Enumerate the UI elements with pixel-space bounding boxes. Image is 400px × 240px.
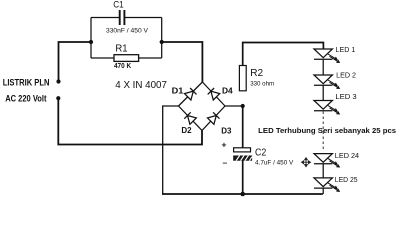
resistor R1 body bbox=[114, 55, 139, 62]
wire bridge side D2 bbox=[179, 106, 203, 131]
svg-text:–: – bbox=[223, 158, 228, 168]
wire bottom rail bbox=[162, 193, 323, 195]
node A left junction of C1/R1 bbox=[89, 40, 93, 44]
diode D4 symbol (apex toward top vertex) bbox=[208, 88, 220, 100]
node B right junction of C1/R1 bbox=[160, 40, 164, 44]
node D bottom rail junction bbox=[240, 192, 245, 197]
svg-text:D1: D1 bbox=[172, 87, 184, 96]
wire LED25 to bottom rail bbox=[322, 188, 324, 194]
wire left stub of parallel C1/R1 bbox=[90, 18, 92, 59]
resistor R2 body bbox=[239, 66, 246, 91]
svg-text:C2: C2 bbox=[255, 146, 266, 158]
svg-text:LED 2: LED 2 bbox=[336, 71, 356, 80]
LED 25 bbox=[314, 178, 339, 191]
wire dashed continuation of LED chain bbox=[322, 112, 324, 152]
wire bridge side D4 bbox=[202, 82, 225, 106]
svg-text:330 ohm: 330 ohm bbox=[250, 81, 274, 88]
svg-text:LISTRIK PLN: LISTRIK PLN bbox=[3, 77, 50, 87]
capacitor C2 positive plate bbox=[234, 148, 251, 152]
wire R2 top to rail corner bbox=[243, 43, 324, 91]
svg-text:R2: R2 bbox=[250, 67, 263, 79]
svg-text:LED 3: LED 3 bbox=[335, 92, 356, 101]
node C junction R2/C2 bbox=[241, 104, 245, 108]
svg-text:4 X IN 4007: 4 X IN 4007 bbox=[115, 79, 167, 91]
move cross marker bbox=[302, 158, 311, 167]
wire AC live: terminal up to corner then right to node A bbox=[59, 42, 92, 80]
diode D1 symbol (apex toward top vertex) bbox=[185, 88, 197, 100]
wire LED1-LED2 bbox=[322, 59, 324, 75]
LED 24 bbox=[314, 154, 339, 167]
svg-text:R1: R1 bbox=[115, 44, 128, 55]
svg-text:D3: D3 bbox=[221, 126, 232, 135]
capacitor C1 plates bbox=[119, 10, 121, 25]
terminal LISTRIK PLN bbox=[56, 79, 60, 83]
wire bridge left vertex down bbox=[163, 106, 179, 195]
svg-text:330nF / 450 V: 330nF / 450 V bbox=[106, 28, 148, 35]
capacitor C2 negative plate (hatched) bbox=[234, 156, 252, 161]
wire R1 branch left bbox=[91, 57, 114, 59]
svg-text:AC 220 Volt: AC 220 Volt bbox=[5, 94, 46, 104]
svg-text:D2: D2 bbox=[181, 126, 192, 135]
svg-text:+: + bbox=[222, 140, 227, 150]
wire bridge right vertex to R2/C2 node bbox=[225, 105, 243, 107]
svg-text:470 K: 470 K bbox=[114, 63, 131, 70]
wire R1 branch right bbox=[139, 57, 162, 59]
wire AC neutral: terminal down, right, up to bridge bottom bbox=[58, 100, 202, 145]
svg-text:4.7uF / 450 V: 4.7uF / 450 V bbox=[255, 159, 294, 166]
svg-text:C1: C1 bbox=[113, 0, 123, 10]
LED 1 bbox=[314, 49, 339, 62]
wire C2 bottom to bottom rail bbox=[242, 160, 244, 194]
svg-text:LED 24: LED 24 bbox=[335, 151, 359, 160]
wire right stub of parallel C1/R1 bbox=[161, 18, 163, 59]
LED 3 bbox=[314, 101, 339, 114]
wire node C down to C2 bbox=[242, 106, 244, 148]
wire LED24-LED25 bbox=[322, 164, 324, 178]
wire C1 branch left bbox=[91, 17, 119, 19]
wire node B to bridge top bbox=[162, 42, 203, 82]
svg-text:LED 1: LED 1 bbox=[336, 45, 356, 54]
diode D3 symbol (apex toward right vertex) bbox=[208, 112, 220, 124]
svg-text:D4: D4 bbox=[222, 87, 233, 96]
diode D2 symbol (apex toward left vertex) bbox=[184, 112, 196, 124]
LED 2 bbox=[314, 75, 339, 88]
wire LED2-LED3 bbox=[322, 85, 324, 100]
terminal AC 220 Volt bbox=[56, 96, 60, 100]
wire bridge side D1 bbox=[179, 82, 203, 106]
svg-text:LED Terhubung Seri sebanyak 25: LED Terhubung Seri sebanyak 25 pcs bbox=[258, 126, 396, 135]
svg-text:LED 25: LED 25 bbox=[335, 175, 358, 184]
wire bridge side D3 bbox=[202, 106, 225, 131]
wire C1 branch right bbox=[125, 17, 162, 19]
